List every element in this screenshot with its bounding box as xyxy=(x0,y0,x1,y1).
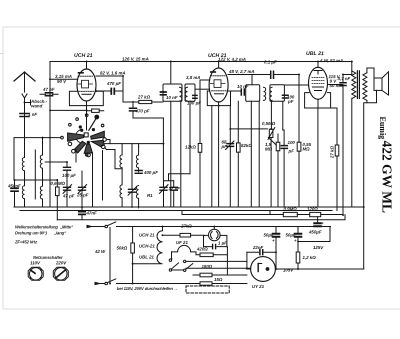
potentiometer 0.5M xyxy=(268,128,276,208)
capacitor 100uF xyxy=(64,162,71,207)
wire T1 bottom legs xyxy=(171,101,190,207)
wire T2 legs xyxy=(251,101,282,207)
capacitor 470pF anode xyxy=(130,104,164,118)
dashed box xyxy=(186,286,229,293)
wire anode to transformer xyxy=(343,71,352,75)
wire switch left xyxy=(14,138,61,180)
resistor 0.6M xyxy=(56,180,60,208)
resistor 12k xyxy=(198,80,202,207)
node antenna tap xyxy=(25,100,31,105)
resistor 82k xyxy=(237,101,241,207)
svg-text:wand: wand xyxy=(31,103,43,108)
wire switch contacts down xyxy=(76,150,103,208)
capacitor 1nF xyxy=(20,114,29,117)
knob 110V xyxy=(28,267,43,280)
svg-text:pF: pF xyxy=(221,144,228,149)
svg-text:47nF: 47nF xyxy=(85,210,97,215)
wire anode tube3 right xyxy=(328,84,344,86)
svg-text:25 pF: 25 pF xyxy=(76,192,89,197)
capacitor 450uF xyxy=(314,217,321,227)
resistor 120ohm xyxy=(310,212,343,216)
svg-text:UCH-21: UCH-21 xyxy=(139,243,155,248)
svg-text:32 pF: 32 pF xyxy=(168,186,180,191)
svg-text:110V: 110V xyxy=(30,260,41,265)
svg-text:pF: pF xyxy=(287,99,294,104)
svg-text:4,7 nF: 4,7 nF xyxy=(337,76,351,81)
wire cathode tube1 down xyxy=(86,101,88,130)
svg-text:15Ω: 15Ω xyxy=(214,277,223,282)
svg-text:400 pF: 400 pF xyxy=(143,170,158,175)
wire L2 tap right xyxy=(45,161,67,163)
capacitor 450pF xyxy=(11,180,18,207)
capacitor 47nF agc xyxy=(79,207,86,219)
wire left vertical from bus xyxy=(49,62,51,208)
coil L1 antenna xyxy=(22,156,24,181)
switch mains lower xyxy=(105,282,108,285)
svg-text:82kΩ: 82kΩ xyxy=(241,143,252,148)
resistor 1.5M xyxy=(276,134,280,207)
svg-text:UCH 21: UCH 21 xyxy=(139,232,155,237)
wire tube2 left drop xyxy=(200,79,210,81)
svg-text:27 kΩ: 27 kΩ xyxy=(330,146,335,160)
svg-text:0,6 MΩ: 0,6 MΩ xyxy=(50,181,65,186)
svg-text:UBL 21: UBL 21 xyxy=(306,51,324,57)
resistor 47k xyxy=(87,109,104,112)
svg-text:48 V, 2,7 mA: 48 V, 2,7 mA xyxy=(228,69,254,74)
svg-text:27kΩ: 27kΩ xyxy=(180,223,192,228)
trimmer 32pF a xyxy=(160,181,169,207)
antenna xyxy=(14,72,35,156)
resistor 0.55M xyxy=(297,142,301,207)
trimmer 47pF xyxy=(78,171,87,207)
capacitor 50uF a xyxy=(273,227,280,270)
svg-text:82 V, 1,6 mA: 82 V, 1,6 mA xyxy=(100,70,125,75)
wire volume tap xyxy=(230,128,267,130)
svg-text:UCH 21: UCH 21 xyxy=(74,53,93,59)
wire anode tube2 xyxy=(228,75,271,85)
wire grid tube3 xyxy=(284,84,308,86)
transformer primary xyxy=(352,62,356,208)
svg-text:+: + xyxy=(272,238,275,243)
resistor 180 xyxy=(193,273,247,277)
wire osc section frame xyxy=(138,144,140,146)
svg-text:47 nF: 47 nF xyxy=(42,87,55,92)
resistor 50k xyxy=(131,227,135,284)
wire osc grid line xyxy=(104,118,163,181)
svg-text:10 nF: 10 nF xyxy=(166,95,178,100)
wire right drop xyxy=(363,207,365,269)
svg-text:100: 100 xyxy=(288,140,296,145)
heater chain xyxy=(133,227,163,264)
svg-text:Drehung um 90°) „lang“: Drehung um 90°) „lang“ xyxy=(15,230,67,235)
speaker LS xyxy=(374,72,389,95)
wire after cap xyxy=(114,90,123,92)
wire heater row xyxy=(186,267,251,269)
cathode loop tube1 xyxy=(69,91,103,105)
oscillator coil L6 xyxy=(136,146,138,208)
wire det top xyxy=(283,129,284,131)
coil L4 xyxy=(40,179,42,207)
wire anode tube1 xyxy=(96,76,123,102)
svg-text:90 V: 90 V xyxy=(57,79,67,84)
svg-text:126 V, 15 mA: 126 V, 15 mA xyxy=(122,56,149,61)
capacitor 100pF T2 xyxy=(283,95,289,98)
wire osc line jog xyxy=(106,140,110,144)
capacitor 50uF b xyxy=(295,227,302,245)
svg-text:50kΩ: 50kΩ xyxy=(116,245,127,250)
svg-text:1 nF: 1 nF xyxy=(28,112,37,117)
switch mains upper xyxy=(105,225,108,228)
title Eumig 422 GW ML xyxy=(378,117,395,214)
capacitor 100pF det xyxy=(281,130,287,207)
svg-text:1 µF: 1 µF xyxy=(218,241,227,246)
svg-text:MΩ: MΩ xyxy=(265,147,273,152)
wire top B+ bus xyxy=(50,61,352,63)
svg-text:50 mA: 50 mA xyxy=(330,83,343,88)
trimmer pad osc xyxy=(128,144,137,208)
capacitor 4.7nF xyxy=(340,75,346,216)
svg-text:1,2 kΩ: 1,2 kΩ xyxy=(302,255,316,260)
svg-text:UBL 21: UBL 21 xyxy=(139,254,155,259)
svg-text:+: + xyxy=(294,238,297,243)
svg-text:220V: 220V xyxy=(55,260,67,265)
coil L2 xyxy=(40,138,42,180)
transformer core xyxy=(357,71,359,99)
svg-text:4 W, 52 mA: 4 W, 52 mA xyxy=(319,58,343,63)
lamp dial xyxy=(204,227,228,249)
svg-text:470 pF: 470 pF xyxy=(106,81,121,86)
wire switch right long xyxy=(105,148,122,169)
wire right column a xyxy=(317,108,319,207)
capacitor 32pF b xyxy=(170,181,177,207)
svg-text:100 pF: 100 pF xyxy=(187,100,201,105)
cathode loop tube3 xyxy=(305,93,331,108)
capacitor 47nF xyxy=(40,93,58,96)
switch contacts voltage a xyxy=(169,252,183,271)
svg-text:47 pF: 47 pF xyxy=(62,193,75,198)
resistor 27k vert right xyxy=(331,108,339,211)
svg-text:450µF: 450µF xyxy=(308,230,322,235)
IF transformer T2 xyxy=(246,85,285,102)
svg-text:pF: pF xyxy=(288,149,295,154)
wire T1 top drop xyxy=(170,62,172,85)
tube U2 UCH21 xyxy=(209,62,228,103)
svg-text:ZF=452 kHz: ZF=452 kHz xyxy=(14,239,38,244)
svg-text:bei 110V, 200V durchschleifen: bei 110V, 200V durchschleifen → xyxy=(117,286,178,291)
svg-text:0,1 µF: 0,1 µF xyxy=(264,60,277,65)
svg-text:422 GW ML: 422 GW ML xyxy=(380,141,395,214)
resistor 15 xyxy=(117,282,247,285)
core line antenna coils xyxy=(34,150,36,199)
wire mid verticals left xyxy=(56,207,58,219)
capacitor 400pF xyxy=(135,171,142,174)
wire cathode tube3 down xyxy=(317,99,319,108)
svg-text:420Ω: 420Ω xyxy=(196,246,208,251)
svg-text:50µF: 50µF xyxy=(263,233,273,238)
wire AGC line xyxy=(50,109,87,111)
trimmer 47pF second xyxy=(63,185,72,194)
svg-text:3,8 mA: 3,8 mA xyxy=(186,75,200,80)
svg-text:180Ω: 180Ω xyxy=(201,264,212,269)
wire mains lower stub xyxy=(95,283,105,285)
capacitor 10nF T1 xyxy=(161,92,167,95)
svg-text:0,5MΩ: 0,5MΩ xyxy=(262,121,276,126)
wire mains link vertical xyxy=(109,228,111,283)
wire secondary to speaker xyxy=(367,68,374,78)
wire 125V branch xyxy=(298,227,330,242)
svg-text:Wellenschalterstellung „Mitte: Wellenschalterstellung „Mitte“ xyxy=(15,224,74,229)
svg-text:R1: R1 xyxy=(147,193,153,198)
svg-text:42 W: 42 W xyxy=(94,249,106,254)
svg-text:12kΩ: 12kΩ xyxy=(185,144,196,149)
switch contacts voltage b xyxy=(184,260,247,271)
oscillator coil L5 xyxy=(120,144,122,207)
svg-text:27 kΩ: 27 kΩ xyxy=(137,94,151,99)
svg-text:10 nF: 10 nF xyxy=(237,84,249,89)
wire screen tube2 xyxy=(228,90,241,92)
NTC bump xyxy=(172,245,201,254)
svg-text:22nF: 22nF xyxy=(252,245,264,250)
tube U4 UY21 rectifier xyxy=(247,257,364,282)
svg-text:UF 21: UF 21 xyxy=(176,240,189,245)
wire mains input arrow xyxy=(87,226,105,228)
svg-text:0,9MΩ: 0,9MΩ xyxy=(283,207,297,212)
rotary switch S1 wafer xyxy=(61,114,107,157)
svg-text:450pF: 450pF xyxy=(7,183,21,188)
resistor 0.9M row xyxy=(182,211,310,217)
transformer secondary xyxy=(363,73,367,101)
coil L3 xyxy=(15,180,58,207)
capacitor 470pF xyxy=(111,89,114,95)
svg-text:UY 21: UY 21 xyxy=(252,284,265,289)
wire tube2 loop legs xyxy=(212,102,219,207)
bus 2nd 210.5 xyxy=(20,210,332,212)
svg-text:122 V, 4,2 mA: 122 V, 4,2 mA xyxy=(218,57,246,62)
tube U3 UBL21 xyxy=(309,62,328,100)
bus 3rd 220 xyxy=(57,215,345,220)
resistor 420 xyxy=(200,247,227,275)
svg-text:100 µF: 100 µF xyxy=(62,173,76,178)
capacitor 100pF T1 xyxy=(193,95,197,98)
svg-text:MΩ: MΩ xyxy=(303,147,311,152)
capacitor 22nF xyxy=(247,250,276,268)
capacitor 0.1uF coupling xyxy=(271,71,299,142)
svg-text:120Ω: 120Ω xyxy=(307,207,318,212)
svg-text:105V: 105V xyxy=(283,268,294,273)
wire T1 to grid tube2 xyxy=(195,88,210,90)
trimmer 68pF xyxy=(226,106,235,207)
cathode loop tube2 xyxy=(207,91,230,106)
wire speaker ground xyxy=(364,103,367,207)
bus ground 207 xyxy=(14,206,364,208)
IF transformer T1 xyxy=(163,84,195,101)
resistor 27k top xyxy=(163,233,204,237)
svg-text:Eumig: Eumig xyxy=(378,117,387,140)
svg-text:50µF: 50µF xyxy=(285,233,295,238)
svg-text:125V: 125V xyxy=(313,245,324,250)
wire grid tube1 xyxy=(50,78,77,80)
svg-text:470 pF: 470 pF xyxy=(135,108,150,113)
svg-text:Netzumschalter: Netzumschalter xyxy=(33,255,63,260)
capacitor 10nF T2 xyxy=(241,89,244,95)
tube U1 UCH21 xyxy=(77,62,96,102)
wire screen tube1 xyxy=(96,90,111,92)
resistor 27k anode xyxy=(123,100,163,103)
knob 220V xyxy=(53,267,68,280)
svg-text:+: + xyxy=(321,221,324,226)
resistor 1.2k xyxy=(296,245,300,269)
